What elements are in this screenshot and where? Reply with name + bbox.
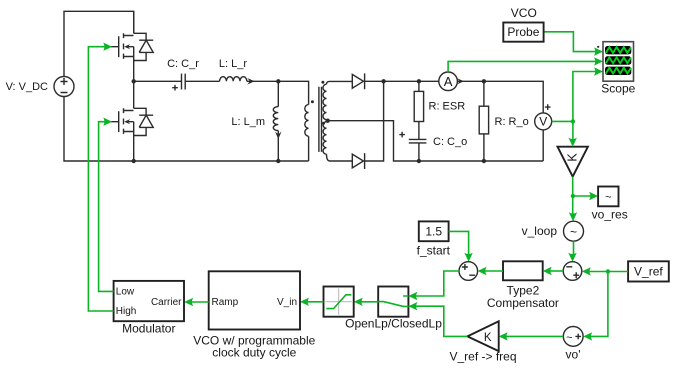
wire switch out to saturation xyxy=(359,301,379,303)
node L vo_res junction xyxy=(571,194,575,198)
svg-text:V: V xyxy=(539,115,547,129)
svg-text:~: ~ xyxy=(570,225,577,239)
wire D3 cathode to output rail xyxy=(365,80,439,82)
wire v_loop to sum2 xyxy=(573,241,575,257)
svg-text:R: ESR: R: ESR xyxy=(429,101,466,113)
label vo' xyxy=(566,347,581,361)
arrow into type2 right xyxy=(543,267,552,275)
label Modulator xyxy=(122,322,175,336)
node J load branch bottom xyxy=(482,159,486,163)
svg-text:~: ~ xyxy=(566,332,572,344)
diode D4 rectifier bottom xyxy=(352,153,364,169)
arrow into VCO V_in xyxy=(300,298,309,306)
wire green voltmeter junction to scope in3 xyxy=(573,72,598,122)
svg-text:V_in: V_in xyxy=(277,297,297,308)
arrow into switch input 2 xyxy=(408,302,417,310)
arrow into sum1 right xyxy=(478,267,487,275)
svg-text:K: K xyxy=(566,153,580,162)
block saturation xyxy=(324,287,354,317)
label C: C_r xyxy=(167,58,199,70)
label f_start xyxy=(417,244,451,258)
wire sum1 out to switch top input xyxy=(414,271,460,296)
arrow into vo_res xyxy=(589,192,598,200)
sum S1 frequency sum xyxy=(459,262,478,281)
wire saturation out to VCO V_in xyxy=(305,301,324,303)
svg-text:Scope: Scope xyxy=(601,82,635,96)
svg-text:vo': vo' xyxy=(566,347,581,361)
node G ESR branch top xyxy=(417,79,421,83)
node D resonant tank bottom xyxy=(276,159,280,163)
label R: R_o xyxy=(495,116,529,128)
svg-text:K: K xyxy=(484,332,492,344)
wire secondary top to diode D3 xyxy=(327,81,353,84)
node A half-bridge midpoint xyxy=(132,79,136,83)
transistor Q1 high-side MOSFET xyxy=(111,11,134,81)
svg-text:v_loop: v_loop xyxy=(522,224,558,238)
block type2 compensator xyxy=(503,261,543,280)
scope block xyxy=(597,42,633,81)
arrow into scope input 2 xyxy=(594,57,603,65)
svg-text:C: C_o: C: C_o xyxy=(433,136,467,148)
arrow into Q1 gate xyxy=(103,43,112,51)
svg-text:V: V_DC: V: V_DC xyxy=(6,81,48,93)
gain U2 V_ref to freq xyxy=(467,321,498,351)
label R: ESR xyxy=(429,101,466,113)
block switch OpenLp/ClosedLp xyxy=(378,287,409,317)
svg-text:Modulator: Modulator xyxy=(122,322,175,336)
label VCO w/ programmable clock duty cycle xyxy=(193,333,315,359)
transformer T1 secondary winding upper xyxy=(321,81,326,120)
wire ammeter to load xyxy=(457,81,543,113)
source vo' perturbation xyxy=(563,327,583,347)
label vo_res xyxy=(592,208,628,222)
svg-text:Ramp: Ramp xyxy=(212,297,239,308)
node K green voltmeter junction xyxy=(571,119,575,123)
ammeter A1 xyxy=(439,72,464,91)
label L: L_m xyxy=(231,116,265,128)
arrow into modulator carrier xyxy=(184,298,193,306)
svg-text:Carrier: Carrier xyxy=(151,297,182,308)
wire green probe to scope in1 xyxy=(544,32,598,52)
arrow into sum2 right xyxy=(582,267,591,275)
arrow into sum2 top xyxy=(568,253,576,262)
resistor R1 R:ESR xyxy=(414,81,423,139)
transformer T1 core xyxy=(319,87,322,152)
transistor Q2 low-side MOSFET xyxy=(111,81,134,161)
wire green ammeter to scope in2 xyxy=(448,61,598,72)
label L: L_r xyxy=(219,58,247,70)
svg-text:1.5: 1.5 xyxy=(425,224,442,238)
capacitor C1 C:C_r xyxy=(172,74,185,91)
label V: V_DC xyxy=(6,81,48,93)
node M V_ref junction xyxy=(606,269,610,273)
wire f_start to sum1 xyxy=(449,231,469,257)
svg-text:Probe: Probe xyxy=(507,25,539,39)
wire center tap return xyxy=(328,121,544,161)
arrow into Q2 gate xyxy=(103,118,112,126)
wire type2 out to sum1 xyxy=(483,270,504,272)
svg-text:OpenLp/ClosedLp: OpenLp/ClosedLp xyxy=(345,317,442,331)
wire VCO ramp out to modulator carrier xyxy=(189,301,209,303)
inductor L2 L:L_m magnetizing xyxy=(273,81,281,161)
gain U1 vloop comparator triangle xyxy=(558,147,588,177)
svg-text:L: L_r: L: L_r xyxy=(219,58,247,70)
svg-text:clock duty cycle: clock duty cycle xyxy=(212,345,296,359)
wire C_r to L_r xyxy=(186,80,220,82)
block modulator xyxy=(114,281,184,321)
svg-text:A: A xyxy=(444,74,453,89)
wire L_r to node C with current arrow xyxy=(247,78,278,85)
diode D3 rectifier top xyxy=(352,73,364,89)
wire modulator high to Q1 gate xyxy=(88,47,113,311)
arrow into sum1 top xyxy=(464,253,472,262)
arrow into switch input 1 xyxy=(408,292,417,300)
label OpenLp/ClosedLp xyxy=(345,317,442,331)
wire comparator out down xyxy=(572,177,574,217)
label Type2 Compensator xyxy=(487,284,559,310)
svg-text:R: R_o: R: R_o xyxy=(495,116,529,128)
arrow into saturation right xyxy=(354,298,363,306)
voltage source V1 V:V_DC xyxy=(54,77,74,97)
block constant 1.5 xyxy=(419,221,449,241)
node I load branch top xyxy=(482,79,486,83)
node C resonant tank top xyxy=(276,79,280,83)
svg-text:V_ref -> freq: V_ref -> freq xyxy=(449,349,516,363)
transformer T1 primary winding xyxy=(305,100,314,136)
inductor L1 L:L_r xyxy=(220,77,247,82)
svg-text:vo_res: vo_res xyxy=(592,208,628,222)
wire sum2 out to type2 xyxy=(548,270,564,272)
resistor R2 R:R_o xyxy=(479,81,488,161)
wire modulator low to Q2 gate xyxy=(99,122,114,292)
arrow into vo' right xyxy=(583,332,592,340)
transformer T1 secondary winding lower xyxy=(322,122,327,155)
node F diode output junction xyxy=(381,79,385,83)
wire V_DC bottom to bottom rail xyxy=(64,97,134,162)
label VCO xyxy=(511,6,537,20)
wire green voltmeter to junction xyxy=(552,120,573,122)
block vo_res output port xyxy=(598,187,618,207)
block V_ref xyxy=(628,261,669,281)
arrow into comparator top xyxy=(569,138,577,147)
label V_ref -> freq xyxy=(449,349,516,363)
source v_loop perturbation xyxy=(564,221,584,241)
svg-text:C: C_r: C: C_r xyxy=(167,58,199,70)
diode D2 body diode of Q2 xyxy=(134,108,154,135)
svg-text:Compensator: Compensator xyxy=(487,296,559,310)
wire green junction down to comparator xyxy=(572,121,574,142)
wire V_ref junction down to vo' xyxy=(588,272,608,337)
wire junction to vo_res port xyxy=(573,195,594,197)
diode D1 body diode of Q1 xyxy=(134,33,154,60)
wire bottom rail node B to transformer primary bottom xyxy=(134,136,309,161)
wire D4 cathode up to node F xyxy=(365,81,384,161)
wire node C to transformer primary top xyxy=(278,81,308,104)
block probe xyxy=(503,23,543,42)
svg-text:VCO: VCO xyxy=(511,6,537,20)
label C: C_o xyxy=(433,136,467,148)
arrow into gain K right xyxy=(499,332,508,340)
svg-text:V_ref: V_ref xyxy=(634,265,663,279)
node E secondary center tap xyxy=(326,119,330,123)
wire top DC+ rail xyxy=(64,11,134,76)
wire V_ref to sum2 xyxy=(587,271,629,273)
wire secondary bottom to diode D4 xyxy=(327,154,353,161)
arrow into scope input 3 xyxy=(594,67,603,75)
label v_loop xyxy=(522,224,558,238)
arrow into v_loop top xyxy=(569,212,577,221)
wire midpoint to C_r xyxy=(134,80,181,82)
svg-text:High: High xyxy=(116,306,137,317)
svg-text:f_start: f_start xyxy=(417,244,451,258)
sum S2 voltage error sum xyxy=(563,262,582,281)
wire gain K out to switch bottom input xyxy=(414,306,468,336)
wire vo' to gain K xyxy=(504,335,564,337)
svg-text:L: L_m: L: L_m xyxy=(231,116,265,128)
svg-text:Low: Low xyxy=(116,286,135,297)
block VCO xyxy=(209,271,300,329)
capacitor C2 C:C_o xyxy=(399,132,426,161)
svg-text:~: ~ xyxy=(605,192,611,204)
node B low-side source on bottom rail xyxy=(132,159,136,163)
node H ESR branch bottom xyxy=(417,159,421,163)
arrow into scope input 1 xyxy=(594,47,603,55)
voltmeter V1 xyxy=(535,104,552,161)
label Scope xyxy=(601,82,635,96)
